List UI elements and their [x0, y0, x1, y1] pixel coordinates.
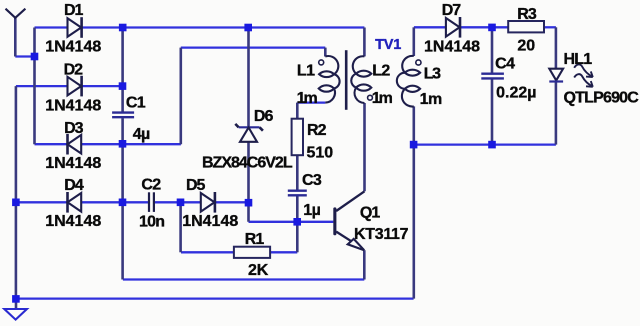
- svg-text:1N4148: 1N4148: [45, 213, 101, 230]
- svg-text:D6: D6: [254, 108, 274, 125]
- svg-text:2K: 2K: [248, 262, 269, 279]
- svg-text:C3: C3: [302, 172, 322, 189]
- svg-text:TV1: TV1: [375, 37, 401, 53]
- svg-text:4µ: 4µ: [133, 126, 150, 143]
- svg-text:D4: D4: [64, 177, 84, 194]
- svg-text:510: 510: [307, 145, 334, 162]
- svg-text:L2: L2: [372, 62, 390, 79]
- svg-text:D3: D3: [64, 120, 84, 137]
- svg-text:20: 20: [517, 37, 535, 54]
- svg-text:1µ: 1µ: [303, 202, 320, 219]
- svg-text:D7: D7: [442, 2, 462, 19]
- svg-text:1m: 1m: [297, 90, 318, 107]
- svg-text:10n: 10n: [139, 213, 164, 230]
- svg-text:D5: D5: [186, 177, 206, 194]
- svg-text:C4: C4: [495, 56, 515, 73]
- svg-text:C2: C2: [141, 177, 161, 194]
- svg-text:QTLP690C: QTLP690C: [564, 90, 640, 107]
- svg-text:1N4148: 1N4148: [45, 155, 101, 172]
- svg-text:KT3117: KT3117: [354, 226, 409, 243]
- svg-text:0.22µ: 0.22µ: [496, 84, 536, 101]
- svg-text:1m: 1m: [420, 91, 442, 108]
- svg-text:1N4148: 1N4148: [45, 38, 101, 55]
- svg-text:1N4148: 1N4148: [424, 39, 480, 56]
- svg-text:R1: R1: [245, 231, 265, 248]
- svg-text:L3: L3: [424, 66, 441, 83]
- svg-text:C1: C1: [126, 95, 146, 112]
- svg-text:1m: 1m: [372, 90, 393, 107]
- svg-text:1N4148: 1N4148: [182, 213, 238, 230]
- svg-text:D1: D1: [64, 2, 84, 19]
- svg-text:R2: R2: [307, 122, 327, 139]
- svg-text:L1: L1: [297, 62, 315, 79]
- svg-text:R3: R3: [517, 6, 537, 23]
- svg-text:Q1: Q1: [360, 205, 380, 222]
- svg-text:BZX84C6V2L: BZX84C6V2L: [202, 155, 293, 172]
- svg-text:1N4148: 1N4148: [45, 98, 101, 115]
- svg-text:HL1: HL1: [564, 51, 593, 68]
- svg-text:D2: D2: [64, 62, 84, 79]
